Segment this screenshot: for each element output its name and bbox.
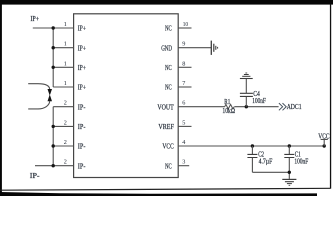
svg-text:IP-: IP-	[78, 163, 86, 170]
IC body U? (current sensor)	[74, 14, 179, 178]
earth ground right bar3	[215, 46, 217, 50]
svg-text:IP-: IP-	[78, 144, 86, 151]
earth ground up bar3	[244, 74, 249, 76]
svg-text:NC: NC	[165, 85, 172, 92]
svg-text:IP+: IP+	[78, 65, 86, 72]
wire pin2 stub d	[53, 165, 73, 167]
svg-text:8: 8	[182, 60, 185, 67]
svg-text:R1: R1	[224, 99, 230, 106]
svg-text:VCC: VCC	[162, 144, 174, 151]
svg-text:C2: C2	[258, 151, 264, 158]
wire pin1 stub a	[53, 27, 73, 29]
junction dot IP+ a	[52, 26, 55, 29]
wire IP+ feed	[33, 27, 53, 29]
wire pin1 stub d	[53, 86, 73, 88]
sheet right border line	[330, 4, 331, 189]
svg-text:4.7µF: 4.7µF	[259, 159, 273, 166]
svg-text:5: 5	[182, 119, 185, 126]
svg-text:IP+: IP+	[30, 16, 39, 23]
svg-text:IP-: IP-	[78, 124, 86, 131]
svg-text:2: 2	[64, 119, 67, 126]
wire IP- bus vertical	[52, 107, 54, 166]
wire ground rail C2-C1	[252, 171, 289, 173]
pin 8 stub	[178, 66, 191, 68]
svg-text:C1: C1	[295, 152, 301, 159]
earth ground right bar1	[210, 41, 212, 55]
svg-text:7: 7	[182, 80, 185, 87]
wire pin2 stub a	[53, 106, 73, 108]
capacitor C4 lower stub	[245, 96, 247, 106]
wire IP- feed	[35, 165, 53, 167]
wire IP+ bus vertical	[52, 28, 54, 87]
capacitor C2 plates	[247, 154, 257, 157]
svg-text:6: 6	[182, 100, 185, 107]
capacitor C4 upper stub	[245, 79, 247, 94]
port chevron ADC1	[279, 103, 286, 110]
svg-text:4: 4	[182, 139, 185, 146]
wire pin1 stub b	[53, 47, 73, 49]
svg-text:IP+: IP+	[78, 45, 86, 52]
svg-text:IP+: IP+	[78, 85, 86, 92]
svg-text:1: 1	[64, 60, 67, 67]
svg-text:NC: NC	[165, 163, 172, 170]
power symbol VCC stem	[321, 139, 328, 146]
earth ground up bar1	[240, 78, 253, 80]
junction dot C1 top	[288, 144, 291, 147]
capacitor C2 upper stub	[251, 146, 253, 154]
earth ground down bar3	[287, 183, 292, 185]
wire VOUT pin6 to R1	[178, 106, 225, 108]
pin 10 stub	[178, 27, 191, 29]
junction dot IP- b	[52, 125, 55, 128]
svg-text:NC: NC	[165, 65, 172, 72]
sheet bottom border line	[0, 188, 331, 190]
capacitor C1 lower stub	[288, 158, 290, 179]
svg-text:IP-: IP-	[78, 104, 86, 111]
svg-text:IP+: IP+	[78, 26, 86, 33]
current direction arrowhead lower	[48, 94, 53, 101]
current direction arrow lower arc	[28, 101, 50, 109]
svg-text:VCC: VCC	[318, 134, 330, 141]
wire pin2 stub c	[53, 145, 73, 147]
svg-text:2: 2	[64, 100, 67, 107]
capacitor C4 plates	[240, 93, 253, 96]
svg-text:1: 1	[64, 80, 67, 87]
svg-text:1: 1	[64, 41, 67, 48]
junction dot VCC end	[323, 144, 326, 147]
svg-text:1: 1	[64, 21, 67, 28]
pin 7 stub	[178, 86, 191, 88]
earth ground right bar2	[213, 44, 215, 52]
svg-text:10: 10	[183, 21, 188, 28]
junction dot IP- d	[52, 164, 55, 167]
svg-text:100nF: 100nF	[294, 159, 308, 166]
svg-text:100nF: 100nF	[252, 98, 266, 105]
junction dot IP- c	[52, 144, 55, 147]
svg-text:VOUT: VOUT	[157, 104, 174, 111]
svg-text:IP-: IP-	[30, 173, 41, 180]
wire GND pin9	[178, 47, 211, 49]
current direction arrow upper arc	[28, 84, 50, 90]
svg-text:2: 2	[64, 159, 67, 166]
svg-text:NC: NC	[165, 26, 172, 33]
frame bottom border band	[0, 192, 317, 196]
earth ground down bar1	[282, 178, 296, 180]
svg-text:10kΩ: 10kΩ	[222, 108, 235, 115]
junction dot IP+ c	[52, 66, 55, 69]
wire pin1 stub c	[53, 66, 73, 68]
earth ground up bar4	[245, 72, 247, 74]
junction dot VOUT node	[245, 105, 248, 108]
frame left border band	[0, 0, 2, 196]
earth ground up bar2	[242, 75, 250, 77]
capacitor C1 plates	[284, 154, 294, 157]
junction dot ground rail	[288, 171, 291, 174]
wire pin2 stub b	[53, 125, 73, 127]
wire R1 to ADC port	[234, 106, 278, 108]
resistor R1 zigzag	[225, 104, 234, 109]
junction dot C2 top	[251, 144, 254, 147]
svg-text:GND: GND	[161, 45, 172, 52]
svg-text:3: 3	[182, 159, 185, 166]
pin 3 stub	[178, 165, 189, 167]
svg-text:9: 9	[182, 41, 185, 48]
pin 5 stub	[178, 125, 191, 127]
svg-text:2: 2	[64, 139, 67, 146]
current direction arrowhead upper	[48, 89, 53, 96]
frame top border band	[0, 0, 333, 5]
wire VCC rail pin4	[178, 145, 324, 147]
earth ground down bar2	[285, 181, 294, 183]
svg-text:ADC1: ADC1	[287, 104, 302, 111]
earth ground down bar4	[289, 184, 291, 186]
capacitor C1 upper stub	[288, 146, 290, 154]
earth ground right bar4	[217, 47, 219, 49]
junction dot IP+ b	[52, 46, 55, 49]
capacitor C2 lower stub	[251, 158, 253, 173]
svg-text:VREF: VREF	[158, 124, 174, 131]
